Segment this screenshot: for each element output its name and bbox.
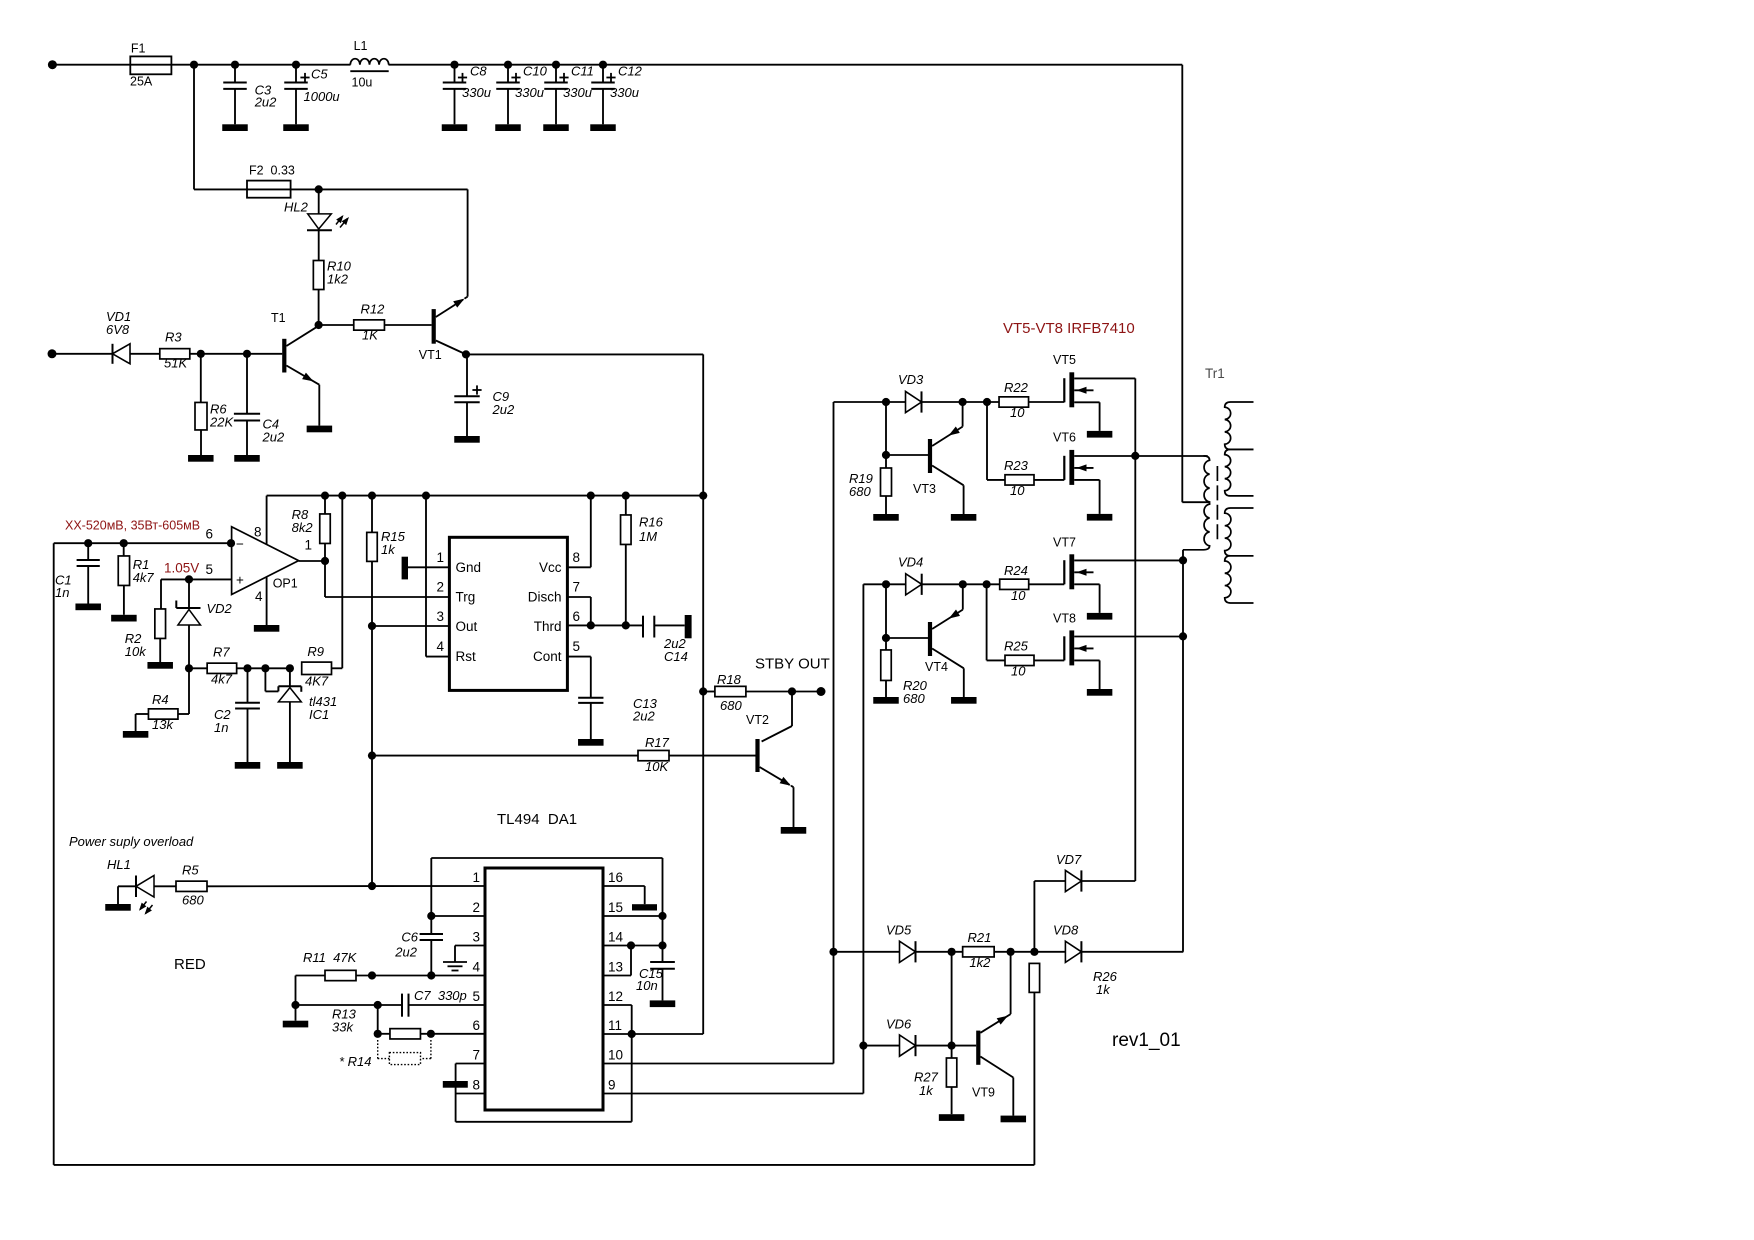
resistor R14 (optional, dashed) (339, 1040, 431, 1069)
svg-text:10: 10 (1010, 483, 1025, 498)
ground for C13 (578, 739, 604, 746)
node VT4 base / R20 (882, 634, 890, 642)
node TL431 cathode / R9 (286, 664, 294, 672)
op-amp pin 8 supply wire (266, 496, 268, 545)
capacitor C2 (214, 668, 260, 762)
svg-text:680: 680 (849, 484, 871, 499)
node pin2 (427, 912, 435, 920)
svg-text:R23: R23 (1004, 458, 1029, 473)
capacitor C4 (234, 354, 285, 455)
pin 2 feedback loop to pin 15 (431, 858, 662, 916)
node VT3 base / R19 (882, 451, 890, 459)
node OP1 output (321, 557, 329, 565)
wire VD3 to R22 (921, 401, 999, 403)
ground for pin5 net (295, 1005, 297, 1021)
pin 14 wire (603, 945, 663, 947)
svg-text:HL1: HL1 (107, 857, 131, 872)
resistor R2 (125, 579, 166, 662)
svg-text:R16: R16 (639, 515, 664, 530)
svg-text:10: 10 (1011, 664, 1026, 679)
ground for C5 (283, 124, 309, 131)
transistor T1 (271, 311, 319, 426)
svg-text:2: 2 (436, 580, 444, 595)
svg-text:R11 47K: R11 47K (303, 950, 358, 965)
svg-text:25A: 25A (130, 74, 153, 88)
wire left feedback loop (54, 543, 1035, 1165)
IC TL494 DA1 block (472, 811, 623, 1110)
svg-text:VD6: VD6 (886, 1016, 912, 1031)
svg-text:1k: 1k (919, 1083, 934, 1098)
zener diode VD2 (176, 579, 232, 668)
wire top rail right corner down to transformer center tap (1181, 65, 1183, 503)
capacitor C3 (223, 61, 277, 125)
resistor R23 (987, 458, 1064, 498)
svg-text:VT6: VT6 (1053, 431, 1076, 445)
svg-text:330u: 330u (462, 85, 491, 100)
resistor R18 (703, 672, 821, 713)
resistor R19 (849, 455, 892, 514)
transformer core dashed line (1216, 466, 1218, 542)
node R13 top (374, 1001, 382, 1009)
svg-text:16: 16 (608, 870, 623, 885)
svg-text:R24: R24 (1004, 563, 1028, 578)
svg-text:Cont: Cont (533, 649, 562, 664)
junction node to F2 branch (190, 61, 198, 69)
diode VD1 (zener 6V8) (106, 309, 160, 364)
svg-text:680: 680 (182, 893, 204, 908)
ground for C2 (235, 762, 261, 769)
wire non-inverting input line (pin 5) (161, 578, 232, 580)
svg-text:R3: R3 (165, 330, 182, 345)
wire transformer bottom terminal down (1182, 550, 1184, 952)
svg-text:VD2: VD2 (207, 601, 233, 616)
svg-text:1.05V: 1.05V (164, 561, 199, 576)
node TL431 ref branch (261, 664, 269, 672)
transistor VT9 (952, 952, 1014, 1116)
resistor R24 (1000, 563, 1065, 603)
svg-text:R18: R18 (717, 672, 742, 687)
svg-text:7: 7 (573, 580, 581, 595)
wire transformer primary tap jog (1182, 501, 1209, 503)
svg-text:F1: F1 (131, 42, 146, 56)
svg-text:VT5-VT8 IRFB7410: VT5-VT8 IRFB7410 (1003, 320, 1135, 337)
pin 3 Out wire (372, 625, 449, 627)
ground for C4 (234, 455, 260, 462)
svg-text:VT1: VT1 (419, 348, 442, 362)
ground for R6 (188, 455, 214, 462)
svg-text:F2 0.33: F2 0.33 (249, 164, 295, 178)
ground for C15 (650, 1000, 676, 1007)
resistor R20 (881, 638, 928, 706)
ground for C12 (590, 124, 616, 131)
transistor VT6 (MOSFET) (1064, 450, 1207, 521)
svg-text:33k: 33k (332, 1020, 354, 1035)
svg-text:3: 3 (436, 609, 444, 624)
pin 7 Disch wire (567, 596, 590, 598)
svg-text:4K7: 4K7 (305, 674, 329, 689)
op-amp OP1 (232, 527, 299, 595)
node VD2 / R7 / R4 (185, 664, 193, 672)
svg-text:VT5: VT5 (1053, 353, 1076, 367)
node VT4 collector (959, 580, 967, 588)
svg-text:R21: R21 (968, 930, 992, 945)
svg-text:680: 680 (720, 698, 742, 713)
svg-text:XX-520мВ, 35Вт-605мВ: XX-520мВ, 35Вт-605мВ (65, 519, 200, 533)
wire VD3 line (834, 401, 906, 403)
resistor R1 (118, 539, 154, 615)
svg-text:HL2: HL2 (284, 200, 309, 215)
svg-text:RED: RED (174, 956, 206, 973)
pin 9 wire (603, 584, 863, 1093)
svg-text:4: 4 (472, 960, 480, 975)
svg-text:5: 5 (205, 562, 213, 577)
capacitor C12 (591, 61, 642, 125)
wire F2 to VT1 collector branch (291, 188, 468, 190)
svg-text:VT4: VT4 (925, 660, 948, 674)
node T1 collector / R10 junction (315, 321, 323, 329)
wire R3 to T1 base (190, 353, 282, 355)
diode VD3 (898, 372, 924, 412)
resistor R27 (914, 1046, 957, 1115)
svg-text:1K: 1K (362, 328, 379, 343)
ground for C1 (75, 604, 101, 611)
node rail to 555 Rst (422, 492, 430, 500)
svg-text:Trg: Trg (456, 590, 476, 605)
node HL2 branch (315, 185, 323, 193)
node pin10 riser / VD5 (829, 948, 837, 956)
ground for T1 emitter (307, 426, 333, 433)
node Thrd / R16 (622, 621, 630, 629)
svg-text:6V8: 6V8 (106, 322, 130, 337)
svg-text:1n: 1n (55, 585, 69, 600)
node Disch-Thrd (587, 621, 595, 629)
svg-text:C14: C14 (664, 649, 688, 664)
node R13 right (427, 1030, 435, 1038)
resistor R25 (987, 639, 1065, 679)
svg-text:2: 2 (472, 900, 480, 915)
LED HL2 (284, 189, 349, 260)
transformer Tr1 secondary winding upper (1225, 402, 1254, 496)
svg-text:8: 8 (254, 525, 262, 540)
svg-text:Disch: Disch (528, 590, 562, 605)
resistor R11 (296, 950, 486, 1005)
pin 3 wire to signal ground (443, 946, 485, 971)
ground for C11 (543, 124, 569, 131)
ground for R19 (873, 514, 899, 521)
svg-text:51K: 51K (164, 356, 188, 371)
svg-text:1: 1 (305, 538, 313, 553)
diode VD4 (898, 555, 923, 595)
capacitor C7 (402, 988, 485, 1017)
ground for C10 (495, 124, 521, 131)
pin 7 wire to ground bar (443, 1064, 485, 1122)
wire VD4 line (863, 583, 905, 585)
node VT2 collector junction (788, 687, 796, 695)
node C2 branch (243, 664, 251, 672)
svg-text:10: 10 (1011, 588, 1026, 603)
capacitor C1 (55, 539, 100, 603)
resistor R5 (176, 863, 485, 908)
transistor VT2 (746, 692, 794, 828)
ground for VT2 emitter (781, 827, 807, 834)
svg-text:C10: C10 (523, 64, 548, 79)
svg-text:680: 680 (903, 691, 925, 706)
wire R9 right end to rail (341, 496, 343, 669)
resistor R26 (1029, 963, 1117, 1165)
node R26/VD7 branch (1030, 948, 1038, 956)
wire VD1 line (52, 353, 113, 355)
ground for OP1 pin4 (254, 625, 280, 632)
node pin4 / C6 (427, 971, 435, 979)
node STBY OUT terminal (817, 687, 826, 696)
resistor R13 (332, 1005, 485, 1039)
svg-text:1k2: 1k2 (327, 272, 349, 287)
transistor VT1 (419, 189, 468, 362)
svg-text:VT7: VT7 (1053, 536, 1076, 550)
transistor VT5 (MOSFET) (1064, 372, 1135, 437)
svg-text:15: 15 (608, 900, 623, 915)
node pin14 / pin13 tie (627, 941, 635, 949)
svg-text:Gnd: Gnd (456, 560, 482, 575)
ground for R4 (123, 731, 149, 738)
pin 1 Gnd bar (402, 557, 450, 580)
node C4 branch (243, 350, 251, 358)
svg-text:330u: 330u (515, 85, 544, 100)
wire VT1 emitter to Vcc corner (466, 353, 703, 355)
svg-text:5: 5 (472, 989, 480, 1004)
svg-text:14: 14 (608, 930, 624, 945)
wire VD4 to R24 (922, 583, 1000, 585)
svg-text:R7: R7 (213, 645, 230, 660)
diode VD5 (834, 923, 963, 963)
op-amp pin 4 ground wire (266, 577, 268, 625)
svg-text:5: 5 (573, 639, 581, 654)
node VT3 base branch (882, 398, 890, 406)
node VT1 emitter / C9 (462, 350, 470, 358)
svg-text:C12: C12 (618, 64, 643, 79)
node VT7 drain tie (1179, 556, 1187, 564)
svg-text:VT2: VT2 (746, 713, 769, 727)
resistor R12 (319, 302, 432, 343)
node R6 branch (197, 350, 205, 358)
svg-text:1k: 1k (381, 542, 396, 557)
ground for R2 (147, 662, 173, 669)
node pin11/pin12 (628, 1030, 636, 1038)
svg-text:Out: Out (456, 619, 478, 634)
diode VD6 (863, 1016, 951, 1056)
node R23 branch (983, 398, 991, 406)
ground for HL1 (105, 904, 131, 911)
resistor R22 (999, 380, 1064, 420)
svg-text:C6: C6 (401, 930, 418, 945)
ground for VT4 emitter (951, 697, 977, 704)
inductor L1 (350, 39, 388, 90)
svg-text:4k7: 4k7 (133, 570, 155, 585)
svg-text:1000u: 1000u (304, 89, 340, 104)
svg-text:C5: C5 (311, 67, 328, 82)
svg-text:R25: R25 (1004, 639, 1029, 654)
node VT3 collector (959, 398, 967, 406)
resistor R15 (367, 492, 406, 887)
svg-text:VD8: VD8 (1053, 923, 1079, 938)
pin 15 wire (603, 915, 663, 917)
node pin4 stray (368, 971, 376, 979)
svg-text:TL494 DA1: TL494 DA1 (497, 811, 577, 828)
node pin15 / C15 (658, 912, 666, 920)
svg-text:2u2: 2u2 (262, 430, 285, 445)
resistor R8 (292, 492, 331, 562)
ground for C9 (454, 436, 480, 443)
transistor VT7 (MOSFET) (1064, 554, 1183, 619)
wire VD7 left leg down (1033, 881, 1035, 952)
pin 10 wire (603, 402, 834, 1064)
svg-text:22K: 22K (209, 415, 234, 430)
svg-text:Rst: Rst (456, 649, 476, 664)
node Vcc rail corner (699, 492, 707, 500)
svg-text:Vcc: Vcc (539, 560, 562, 575)
resistor R3 (160, 330, 190, 371)
svg-text:−: − (236, 536, 244, 551)
pin 6 Thrd wire (567, 624, 643, 626)
node input terminal left (standby supply) (48, 349, 57, 358)
svg-text:1k2: 1k2 (969, 955, 991, 970)
node pin5 ground corner (291, 1001, 299, 1009)
svg-text:8k2: 8k2 (292, 520, 314, 535)
svg-text:7: 7 (472, 1048, 480, 1063)
node input terminal top-left (48, 60, 57, 69)
wire VD5-VD6 tie (951, 952, 953, 1046)
node VT8 drain tie (1179, 632, 1187, 640)
svg-text:VT9: VT9 (972, 1085, 995, 1099)
svg-text:2u2: 2u2 (632, 709, 655, 724)
diode VD8 (1053, 923, 1183, 963)
node VD2 / 1.05V (185, 575, 193, 583)
svg-text:4k7: 4k7 (211, 672, 233, 687)
svg-text:R17: R17 (645, 735, 670, 750)
svg-text:4: 4 (255, 589, 263, 604)
svg-text:11: 11 (608, 1018, 622, 1033)
svg-text:* R14: * R14 (339, 1054, 372, 1069)
node pin9 riser / VD6 (859, 1042, 867, 1050)
svg-text:2u2: 2u2 (394, 945, 417, 960)
capacitor C9 (454, 354, 515, 436)
IC1 tl431 shunt regulator (265, 668, 337, 762)
transformer Tr1 primary winding upper (1204, 456, 1210, 502)
node Out / R15 (368, 622, 376, 630)
transformer Tr1 secondary winding lower (1225, 508, 1254, 603)
resistor R4 (136, 668, 189, 732)
LED HL1 (107, 857, 176, 915)
svg-text:13: 13 (608, 960, 623, 975)
svg-text:6: 6 (573, 609, 581, 624)
node pin1 / R15 bottom (368, 882, 376, 890)
capacitor C15 (636, 916, 675, 1000)
ground for R20 (873, 697, 899, 704)
wire pin11 riser to R18 node and Vcc rail (702, 496, 704, 1034)
svg-text:10: 10 (1010, 405, 1025, 420)
transformer Tr1 primary winding lower (1183, 502, 1210, 550)
svg-text:VD5: VD5 (886, 923, 912, 938)
svg-text:1: 1 (436, 550, 444, 565)
node VT9 collector branch (1007, 948, 1015, 956)
svg-text:12: 12 (608, 989, 623, 1004)
capacitor C5 (284, 61, 339, 125)
svg-text:C7 330p: C7 330p (414, 988, 467, 1003)
capacitor C8 (443, 61, 491, 125)
svg-text:1n: 1n (214, 720, 228, 735)
transistor VT3 (PNP) (886, 402, 964, 514)
transistor VT4 (PNP) (886, 584, 964, 697)
svg-text:STBY OUT: STBY OUT (755, 655, 830, 672)
svg-text:9: 9 (608, 1078, 616, 1093)
pin 16 wire to ground bar (603, 886, 657, 911)
svg-text:10K: 10K (645, 759, 669, 774)
wire R23 branch down (986, 402, 988, 480)
node pin14 / C15 branch (658, 941, 666, 949)
node R13 left (374, 1030, 382, 1038)
transistor VT8 (MOSFET) (1064, 630, 1183, 695)
svg-text:Power suply overload: Power suply overload (69, 834, 194, 849)
node Vcc rail 555 (587, 492, 595, 500)
pin 8 Vcc wire (567, 566, 590, 568)
pin 5 Cont wire / capacitor C13 (567, 657, 657, 739)
node R9 feed on rail (338, 492, 346, 500)
ground for C3 (222, 124, 248, 131)
svg-text:2u2: 2u2 (492, 402, 515, 417)
svg-text:6: 6 (205, 527, 213, 542)
svg-text:Tr1: Tr1 (1205, 366, 1225, 381)
wire Vcc rail (267, 495, 704, 497)
capacitor C6 (394, 916, 443, 976)
svg-text:R4: R4 (152, 692, 169, 707)
svg-text:R12: R12 (361, 302, 386, 317)
fuse F1 (130, 42, 171, 89)
capacitor C11 (544, 61, 594, 125)
svg-text:1k: 1k (1096, 982, 1111, 997)
svg-text:8: 8 (472, 1078, 480, 1093)
svg-text:VD4: VD4 (898, 555, 923, 570)
diode VD7 (1034, 852, 1135, 892)
node R17 tap on R15 branch (368, 752, 376, 760)
svg-text:R9: R9 (307, 644, 324, 659)
node VT5/VT6 drain junction (1131, 452, 1139, 460)
resistor R21 (963, 930, 1066, 970)
svg-text:13k: 13k (152, 717, 174, 732)
resistor R7 (189, 645, 290, 687)
svg-text:R22: R22 (1004, 380, 1029, 395)
svg-text:VT8: VT8 (1053, 612, 1076, 626)
svg-text:4: 4 (436, 639, 444, 654)
svg-text:Thrd: Thrd (534, 619, 562, 634)
ground for IC1 (277, 762, 303, 769)
svg-text:VT3: VT3 (913, 482, 936, 496)
node R18 tap on Vcc drop (699, 687, 707, 695)
svg-text:R5: R5 (182, 863, 199, 878)
svg-text:10k: 10k (125, 644, 147, 659)
svg-text:2u2: 2u2 (254, 95, 277, 110)
pin 11 wire (603, 1033, 703, 1035)
node VD6 / VT9 base / R27 (948, 1042, 956, 1050)
wire VT5 drain chain down to VD7 (1134, 378, 1136, 881)
resistor R16 (621, 492, 664, 626)
svg-text:IC1: IC1 (309, 707, 329, 722)
resistor R17 (372, 735, 756, 774)
svg-text:L1: L1 (354, 39, 368, 53)
pin 13 wire (603, 946, 631, 976)
ground for R1 (111, 615, 136, 622)
svg-text:6: 6 (472, 1018, 480, 1033)
node OP1 pin6 input (227, 539, 235, 547)
